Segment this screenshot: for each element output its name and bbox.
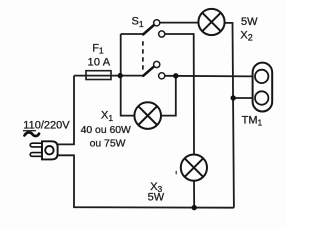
svg-text:TM1: TM1 <box>242 114 263 127</box>
svg-text:5W: 5W <box>241 16 258 28</box>
svg-text:40 ou 60W: 40 ou 60W <box>81 125 131 136</box>
svg-text:F1: F1 <box>92 42 104 55</box>
svg-text:X2: X2 <box>240 29 252 42</box>
svg-text:5W: 5W <box>148 191 165 203</box>
svg-text:10 A: 10 A <box>88 57 111 69</box>
svg-text:ou 75W: ou 75W <box>90 139 126 150</box>
svg-text:X1: X1 <box>101 110 113 123</box>
svg-text:110/220V: 110/220V <box>23 120 70 132</box>
svg-text:S1: S1 <box>132 16 144 29</box>
